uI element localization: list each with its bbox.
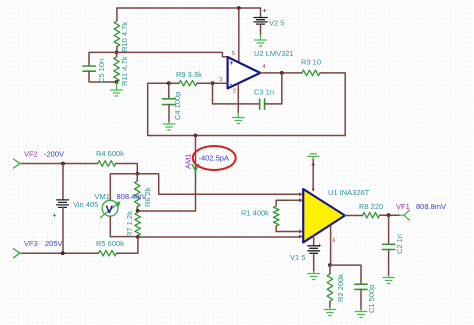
svg-text:C2 1n: C2 1n (395, 234, 404, 254)
svg-text:R11 4.7k: R11 4.7k (120, 56, 129, 86)
battery V1 (308, 236, 322, 272)
resistor R7 (135, 211, 141, 237)
svg-text:V1 5: V1 5 (290, 253, 305, 262)
ground below C2 (383, 276, 394, 284)
wire minus input (213, 82, 228, 84)
svg-text:Vin 405: Vin 405 (73, 200, 98, 209)
junction Vin bottom (61, 251, 65, 255)
wire to C5 (89, 52, 117, 66)
junction U2 output (280, 71, 284, 75)
wire U2 output (260, 72, 302, 74)
pin dot U1 top (312, 188, 314, 190)
capacitor C5 (83, 66, 117, 82)
svg-text:+: + (230, 60, 234, 67)
svg-text:3: 3 (220, 77, 223, 83)
svg-text:VF3: VF3 (24, 239, 38, 248)
svg-text:-: - (230, 82, 232, 89)
ground below C1 (355, 310, 366, 318)
ground below C4 (163, 122, 174, 130)
wire VF3 row (22, 252, 99, 254)
junction R2 top (328, 263, 332, 267)
op-amp U2 plus minus marks (230, 60, 234, 89)
svg-text:R9 3.3k: R9 3.3k (176, 70, 202, 79)
wire top rail (117, 7, 261, 9)
svg-text:R1 400k: R1 400k (241, 209, 269, 218)
arrow up to ground (311, 162, 315, 166)
wire VF2 row (22, 163, 98, 165)
arrowhead row3 (299, 230, 303, 234)
svg-text:U1 INA326T: U1 INA326T (328, 188, 370, 197)
svg-text:R3 10: R3 10 (301, 58, 321, 67)
wire row2 (276, 199, 300, 201)
wire node A to U2 plus input (117, 52, 228, 56)
junction minus input (211, 81, 215, 85)
wire VM1 bottom (110, 216, 138, 237)
svg-text:C4 100p: C4 100p (173, 92, 182, 120)
svg-text:6: 6 (333, 238, 336, 244)
junction R9 left (167, 81, 171, 85)
capacitor C3 feedback (213, 73, 282, 109)
instrumentation amp U1 (303, 189, 345, 242)
svg-text:V: V (106, 204, 114, 216)
svg-text:2: 2 (233, 89, 236, 95)
svg-text:4: 4 (263, 64, 266, 70)
svg-text:R5 600k: R5 600k (96, 239, 124, 248)
svg-text:C1 500p: C1 500p (367, 285, 376, 313)
arrowhead row1 (299, 192, 303, 196)
svg-text:VM1: VM1 (95, 192, 110, 201)
wire U2 pin5 supply (238, 8, 240, 62)
svg-text:+: + (53, 213, 57, 220)
svg-text:C5 10n: C5 10n (97, 59, 106, 83)
svg-text:808.8mV: 808.8mV (416, 202, 446, 211)
port VF2 (14, 159, 24, 168)
battery V2 (254, 8, 267, 35)
op-amp U2 (228, 57, 261, 88)
svg-text:R7 1.2k: R7 1.2k (125, 211, 134, 237)
wire U1 top pin (312, 160, 314, 191)
svg-text:-200V: -200V (44, 150, 64, 159)
junction AM1 tap (194, 134, 198, 138)
svg-text:R6 2k: R6 2k (143, 187, 152, 207)
capacitor C1 (355, 284, 367, 309)
resistor R2 (327, 265, 333, 307)
capacitor C2 (383, 215, 395, 275)
junction top rail (237, 6, 241, 10)
resistor R10 (114, 8, 120, 52)
svg-text:R10 4.7k: R10 4.7k (120, 22, 129, 52)
svg-text:+: + (318, 243, 322, 250)
resistor R4 (98, 161, 138, 174)
svg-text:R8 220: R8 220 (359, 202, 383, 211)
wire row3 (276, 231, 300, 233)
svg-text:V2 5: V2 5 (269, 19, 284, 28)
junction R7 bottom (136, 235, 140, 239)
svg-text:C3 1n: C3 1n (254, 88, 274, 97)
svg-text:VF1: VF1 (396, 202, 410, 211)
junction R6 bottom (136, 209, 140, 213)
measurement ellipse (193, 146, 236, 170)
ground below V2 (255, 35, 266, 46)
svg-text:R4 600k: R4 600k (96, 149, 124, 158)
svg-text:U2 LMV321: U2 LMV321 (254, 49, 294, 58)
ground below V1 (308, 272, 319, 280)
ground below R2 (324, 308, 335, 316)
ammeter AM1 wire (138, 136, 196, 212)
resistor R5 (99, 237, 138, 256)
svg-text:5: 5 (232, 51, 235, 57)
resistor R3 (302, 70, 345, 76)
wire row4 to U1 (138, 236, 301, 238)
arrowhead row2 (299, 198, 303, 202)
wire VM1 top (110, 174, 137, 201)
battery Vin (53, 164, 69, 254)
resistor R8 (363, 212, 400, 218)
wire bottom rail (148, 83, 346, 135)
svg-text:R2 200k: R2 200k (336, 274, 345, 302)
voltmeter VM1 (101, 200, 121, 217)
junction R11 bottom (115, 80, 119, 84)
svg-text:AM1: AM1 (184, 154, 193, 169)
svg-text:VF2: VF2 (24, 150, 38, 159)
svg-text:+: + (263, 8, 267, 15)
junction C2 top (387, 213, 391, 217)
wire step to row1 (137, 174, 300, 195)
junction R10/R11 (115, 51, 119, 55)
wire U1 output (345, 215, 363, 217)
arrowhead row4 (299, 235, 303, 239)
ground below R11 (111, 82, 122, 96)
wire U2 pin2 (237, 84, 239, 113)
resistor R11 (114, 52, 120, 82)
ground below U2 pin2 (233, 113, 244, 124)
svg-text:205V: 205V (45, 239, 63, 248)
svg-text:-402.5pA: -402.5pA (199, 154, 229, 163)
resistor R6 (135, 174, 141, 211)
junction Vin top (61, 162, 65, 166)
capacitor C4 (163, 83, 176, 122)
port VF1 (400, 210, 410, 220)
ammeter AM1 arrow (192, 165, 199, 172)
ground above U1 (308, 154, 319, 160)
resistor R9 (169, 80, 213, 86)
wire to C1 (330, 265, 361, 284)
wire U1 pin6 (330, 226, 332, 266)
wire output down right side (344, 73, 346, 136)
resistor R1 (273, 200, 279, 231)
junction R4 right (135, 172, 139, 176)
port VF3 (14, 249, 24, 258)
